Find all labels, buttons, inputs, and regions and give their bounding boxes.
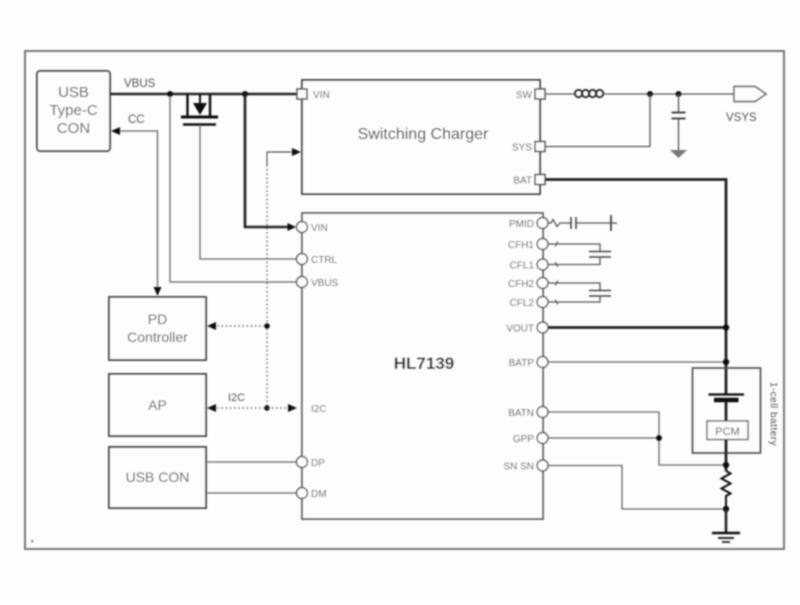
svg-text:USB CON: USB CON bbox=[126, 469, 190, 485]
inductor L1 bbox=[575, 90, 603, 97]
HL7139 U1 bbox=[302, 213, 543, 519]
svg-text:VOUT: VOUT bbox=[506, 324, 534, 335]
wire enable into charger with arrowhead bbox=[267, 152, 294, 165]
arrowhead into PD controller bbox=[207, 322, 216, 330]
wire SYS elbow bbox=[545, 94, 650, 147]
arrowhead on VIN wire bbox=[288, 223, 297, 231]
svg-text:SW: SW bbox=[516, 90, 533, 101]
wire VOUT (thick) bbox=[548, 326, 726, 329]
arrowhead into HL7139 bbox=[288, 404, 297, 412]
capacitor C1 at VSYS bbox=[672, 94, 686, 150]
pin SW of charger bbox=[535, 89, 545, 99]
svg-text:SN SN: SN SN bbox=[503, 462, 534, 473]
svg-text:CFL1: CFL1 bbox=[510, 261, 535, 272]
svg-text:BATN: BATN bbox=[508, 408, 534, 419]
wire VBUS to charger VIN (thick) bbox=[245, 94, 294, 227]
battery box bbox=[693, 368, 761, 453]
svg-text:USB: USB bbox=[58, 84, 89, 101]
wire BAT (thick) bbox=[545, 180, 726, 395]
svg-text:PMID: PMID bbox=[509, 219, 534, 230]
svg-text:DP: DP bbox=[311, 458, 325, 469]
pin BAT of charger bbox=[535, 175, 545, 185]
wire VBUS (thick) bbox=[110, 93, 297, 96]
pin SNSN bbox=[537, 460, 548, 471]
svg-text:CFL2: CFL2 bbox=[510, 298, 535, 309]
node on PD dotted line bbox=[264, 323, 270, 329]
svg-text:CC: CC bbox=[128, 114, 145, 126]
pin VIN of charger bbox=[297, 89, 307, 99]
border frame bbox=[25, 51, 784, 549]
arrowhead into AP bbox=[207, 404, 216, 412]
svg-text:BAT: BAT bbox=[513, 176, 532, 187]
node VBUS junction 2 bbox=[242, 91, 248, 97]
ground main bbox=[712, 533, 740, 542]
pin CTRL bbox=[297, 254, 308, 265]
wire VBUS branch to VBUS pin bbox=[170, 96, 296, 282]
connector VSYS bbox=[734, 87, 766, 102]
svg-text:HL7139: HL7139 bbox=[394, 354, 454, 373]
frame corner speck bbox=[31, 540, 34, 543]
arrowhead CC into PD controller bbox=[154, 287, 162, 296]
PCM module bbox=[707, 421, 748, 440]
pin VIN of HL7139 bbox=[297, 222, 308, 233]
PMID network: bead + capacitor C2 bbox=[548, 215, 617, 231]
PD Controller U3 bbox=[109, 297, 206, 360]
transistor Q1 (PMOS load switch) bbox=[181, 94, 218, 125]
ground at C1 bbox=[670, 150, 687, 158]
wire DP bbox=[206, 461, 296, 463]
pin VBUS bbox=[297, 277, 308, 288]
node BATP junction bbox=[723, 359, 729, 365]
pin CFL1 bbox=[537, 259, 548, 270]
svg-text:BATP: BATP bbox=[509, 358, 535, 369]
wire CC bbox=[118, 131, 158, 289]
pin CFL2 bbox=[537, 297, 548, 308]
svg-text:CTRL: CTRL bbox=[311, 255, 338, 266]
AP U4 bbox=[109, 374, 206, 436]
pin DM bbox=[297, 488, 308, 499]
capacitor CF2 flying cap with wires bbox=[548, 281, 611, 305]
pin DP bbox=[297, 457, 308, 468]
svg-text:Switching Charger: Switching Charger bbox=[358, 126, 489, 143]
pin CFH1 bbox=[537, 239, 548, 250]
wire PCM to sense node (thick) bbox=[725, 440, 728, 472]
node BATN junction bbox=[723, 462, 729, 468]
Switching Charger U2 bbox=[302, 80, 540, 194]
svg-text:I2C: I2C bbox=[311, 404, 327, 415]
battery BT1 bbox=[709, 395, 745, 401]
node SW/SYS junction bbox=[647, 91, 653, 97]
svg-text:Type-C: Type-C bbox=[49, 102, 98, 119]
USB CON J2 bbox=[109, 447, 206, 508]
svg-text:VSYS: VSYS bbox=[726, 112, 757, 124]
svg-text:VBUS: VBUS bbox=[311, 278, 339, 289]
wire DM bbox=[206, 492, 296, 494]
node SNSN junction bbox=[723, 506, 729, 512]
wire dotted vertical to I2C net bbox=[266, 165, 268, 408]
arrowhead CC into USB connector bbox=[111, 127, 120, 135]
resistor R1 bbox=[722, 471, 731, 509]
svg-text:I2C: I2C bbox=[228, 392, 245, 404]
svg-text:CFH2: CFH2 bbox=[508, 279, 535, 290]
pin BATP bbox=[537, 357, 548, 368]
svg-text:1-cell battery: 1-cell battery bbox=[768, 382, 779, 446]
wire I2C dotted bbox=[213, 407, 292, 409]
svg-text:PCM: PCM bbox=[715, 426, 739, 438]
wire SW to inductor bbox=[545, 93, 574, 95]
wire to ground (thick) bbox=[725, 509, 728, 533]
pin VOUT bbox=[537, 322, 548, 333]
pin SYS of charger bbox=[535, 142, 545, 152]
svg-text:Controller: Controller bbox=[127, 329, 188, 345]
svg-text:GPP: GPP bbox=[513, 434, 534, 445]
pin GPP bbox=[537, 433, 548, 444]
node cap junction bbox=[676, 91, 682, 97]
svg-text:PD: PD bbox=[148, 311, 167, 327]
svg-text:SYS: SYS bbox=[512, 143, 532, 154]
wire inductor to VSYS bbox=[602, 93, 734, 95]
node VBUS junction 1 bbox=[167, 91, 173, 97]
wire BATN bbox=[548, 412, 726, 465]
wire BATP bbox=[548, 361, 726, 363]
USB Type-C connector J1 bbox=[37, 71, 110, 151]
pin PMID bbox=[537, 218, 548, 229]
capacitor CF1 flying cap with wires bbox=[548, 242, 611, 268]
svg-text:CFH1: CFH1 bbox=[508, 240, 535, 251]
svg-text:VIN: VIN bbox=[311, 223, 328, 234]
pin CFH2 bbox=[537, 278, 548, 289]
svg-text:AP: AP bbox=[148, 397, 167, 413]
svg-text:CON: CON bbox=[57, 120, 90, 137]
svg-text:VIN: VIN bbox=[313, 90, 330, 101]
node VOUT/BAT junction bbox=[723, 324, 729, 330]
wire SNSN bbox=[548, 466, 726, 510]
node on I2C line bbox=[264, 405, 270, 411]
svg-text:DM: DM bbox=[311, 489, 327, 500]
pin BATN bbox=[537, 407, 548, 418]
wire battery to PCM (thick) bbox=[725, 402, 728, 421]
svg-text:VBUS: VBUS bbox=[124, 78, 156, 90]
wire GPP bbox=[548, 437, 659, 439]
node GPP/BATN junction bbox=[656, 435, 662, 441]
wire gate of Q1 to CTRL pin bbox=[200, 126, 296, 259]
wire PD Controller dotted to vertical net bbox=[213, 325, 267, 327]
